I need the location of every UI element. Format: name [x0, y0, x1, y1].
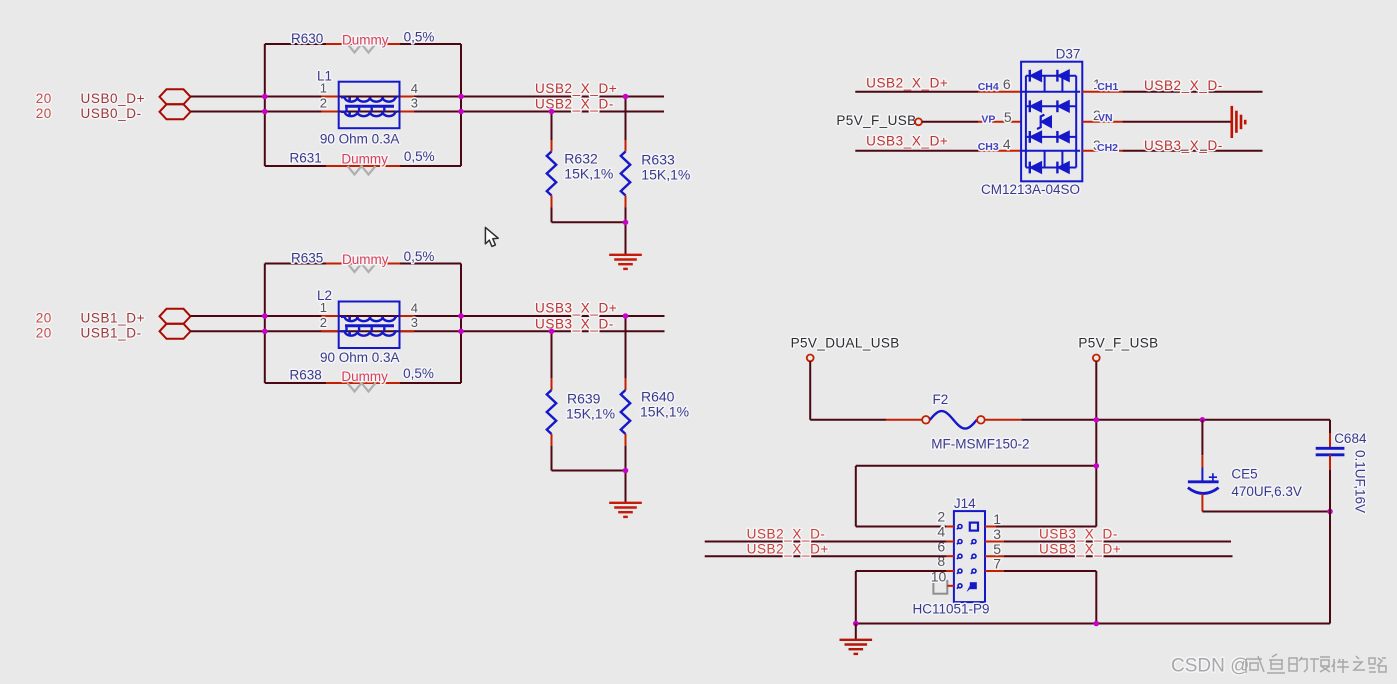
svg-text:CE5: CE5 — [1231, 467, 1257, 482]
inductor L2 upper winding — [341, 317, 397, 321]
ground symbol GND3 — [840, 640, 873, 654]
char 鱼 — [1267, 654, 1285, 673]
svg-text:R632: R632 — [564, 151, 598, 167]
junction (461,316) — [458, 313, 464, 319]
capacitor C684 top lead dark — [1329, 420, 1331, 433]
J14 pin6 stub red — [946, 555, 954, 557]
port symbol USB0_D- (hexagon) — [160, 104, 191, 119]
wire USB3_X_D+ to D37 — [855, 150, 978, 152]
capacitor CE5 top pin red — [1201, 455, 1203, 467]
svg-text:P5V_F_USB: P5V_F_USB — [836, 113, 916, 128]
svg-text:1: 1 — [993, 511, 1001, 527]
svg-text:USB1_D+: USB1_D+ — [81, 311, 146, 326]
svg-text:D37: D37 — [1056, 47, 1081, 62]
D37 body box — [1021, 62, 1082, 182]
svg-text:CSDN @: CSDN @ — [1171, 656, 1249, 677]
resistor R632 top lead dark — [551, 112, 553, 141]
svg-text:2: 2 — [320, 96, 327, 111]
svg-text:F2: F2 — [933, 392, 949, 407]
junction (855.8,623.5) — [853, 621, 859, 627]
inductor L1 pin stubs (red) — [321, 96, 339, 98]
resistor R631 pins (red) — [326, 165, 400, 167]
char 硬 — [1310, 657, 1330, 672]
wire horizontal at 465.8 — [856, 465, 1097, 467]
capacitor CE5 curved plate — [1188, 488, 1219, 494]
wire USB2_X_D+ to D37 — [855, 91, 978, 93]
resistor R638 pins (red) — [326, 382, 400, 384]
wire fuse to C684 rail — [1021, 419, 1330, 421]
fuse F2 left terminal circle — [922, 416, 930, 424]
pin 1 stub (red) — [1082, 91, 1122, 93]
junction (625.5,96.5) — [623, 94, 629, 100]
wire USB1_D- row — [191, 330, 665, 332]
wire pin1 to P5V vertical — [996, 526, 1096, 528]
svg-text:R638: R638 — [290, 368, 322, 383]
svg-text:20: 20 — [36, 311, 52, 326]
svg-text:Dummy: Dummy — [341, 152, 388, 167]
svg-text:USB3_X_D+: USB3_X_D+ — [535, 301, 617, 316]
D37 inner vertical row1-pin1 right — [1061, 76, 1063, 92]
resistor R640 top lead dark — [625, 316, 627, 378]
inductor L1 lower polarity tick — [348, 112, 351, 117]
svg-text:R633: R633 — [641, 152, 675, 168]
svg-text:CH3: CH3 — [978, 141, 999, 153]
wire USB0_D- row — [191, 111, 665, 113]
svg-text:90 Ohm 0.3A: 90 Ohm 0.3A — [320, 132, 400, 147]
svg-text:Dummy: Dummy — [341, 369, 388, 384]
D37 diodes row 3 — [1030, 131, 1070, 143]
D37 interior left rail — [1025, 76, 1027, 168]
J14 pin1 stub red — [985, 526, 996, 528]
open terminal circle P5V_F_USB top — [1093, 355, 1100, 362]
wire USB0_D+ row — [191, 96, 665, 98]
svg-text:5: 5 — [993, 541, 1001, 557]
svg-text:USB2_X_D+: USB2_X_D+ — [535, 81, 617, 96]
capacitor CE5 top lead dark — [1201, 420, 1203, 455]
junction (625.5,316) — [623, 313, 629, 319]
capacitor CE5 blue lead — [1201, 468, 1203, 482]
svg-text:VN: VN — [1098, 112, 1113, 124]
svg-text:20: 20 — [36, 326, 52, 341]
svg-text:USB0_D+: USB0_D+ — [81, 91, 146, 106]
junction (264.8,331.3) — [262, 329, 268, 335]
resistor R630 pins (red) — [326, 43, 400, 45]
J14 pin1 inner square glyph — [970, 523, 978, 531]
svg-text:470UF,6.3V: 470UF,6.3V — [1231, 484, 1302, 499]
wire R631 bottom row — [265, 165, 461, 167]
svg-text:USB3_X_D-: USB3_X_D- — [1144, 138, 1223, 153]
junction (264.8,316) — [262, 313, 268, 319]
wire pin7 vertical down — [1095, 571, 1097, 624]
pin 2 stub (red) — [1082, 121, 1122, 123]
junction (1096.3,623.5) — [1094, 621, 1100, 627]
wire R635 top row — [265, 263, 461, 265]
resistor R640 bottom lead dark — [625, 446, 627, 471]
char 路 — [1369, 658, 1386, 672]
capacitor C684 top plate — [1316, 447, 1345, 450]
svg-text:0.1UF,16V: 0.1UF,16V — [1353, 450, 1368, 513]
svg-text:0,5%: 0,5% — [403, 366, 434, 381]
svg-text:R630: R630 — [291, 31, 323, 46]
inductor L2 pin stubs (red) — [321, 315, 339, 317]
svg-text:USB2_X_D+: USB2_X_D+ — [747, 541, 829, 556]
D37 diode row 1 line — [1026, 75, 1076, 77]
svg-text:CH1: CH1 — [1097, 81, 1118, 93]
D37 diodes row 4 — [1030, 162, 1070, 174]
port symbol USB1_D- (hexagon) — [160, 324, 191, 339]
svg-text:2: 2 — [937, 509, 945, 525]
inductor L1 lower winding stems — [347, 108, 385, 112]
resistor R639 bottom pin red — [551, 434, 553, 446]
svg-text:0,5%: 0,5% — [404, 149, 435, 164]
capacitor CE5 plus sign — [1209, 473, 1217, 481]
resistor R632 body zigzag — [547, 152, 556, 196]
svg-text:MF-MSMF150-2: MF-MSMF150-2 — [931, 437, 1029, 452]
capacitor CE5 top plate — [1188, 480, 1219, 483]
svg-text:USB3_X_D+: USB3_X_D+ — [866, 134, 948, 149]
D37 diode row 4 line — [1026, 167, 1076, 169]
resistor R640 top pin red — [625, 378, 627, 390]
fuse F2 right terminal circle — [977, 416, 985, 424]
capacitor C684 bottom lead dark — [1329, 470, 1331, 624]
J14 pin2 stub red — [946, 526, 954, 528]
wire R635 loop right vertical — [460, 264, 462, 384]
D37 inner vertical row1-pin1 — [1044, 76, 1046, 92]
D37 pin row CH4-1 inner line — [1021, 91, 1080, 93]
wire P5V_DUAL_USB down — [809, 361, 811, 420]
wire D37 pin2 VN to ground — [1122, 121, 1231, 123]
D37 diode row 3 line — [1026, 136, 1076, 138]
watermark chinese characters (approximated strokes) — [1246, 654, 1386, 673]
svg-text:USB2_X_D-: USB2_X_D- — [747, 526, 826, 541]
wire pin8 vertical down — [855, 571, 857, 624]
J14 pin5 stub red — [985, 555, 1004, 557]
resistor R640 bottom pin red — [625, 434, 627, 446]
inductor L2 core bar — [345, 324, 394, 327]
resistor R633 top lead dark — [625, 97, 627, 141]
wire ground stem 2 — [625, 471, 627, 503]
ground symbol GND2 — [609, 503, 642, 517]
svg-text:J14: J14 — [954, 496, 976, 511]
svg-text:R640: R640 — [641, 388, 675, 404]
svg-text:15K,1%: 15K,1% — [564, 166, 613, 182]
svg-text:USB0_D-: USB0_D- — [81, 106, 142, 121]
svg-text:4: 4 — [937, 524, 945, 540]
svg-text:15K,1%: 15K,1% — [641, 167, 690, 183]
svg-text:4: 4 — [411, 300, 418, 315]
resistor R639 top pin red — [551, 378, 553, 390]
wire USB3_X_D+ long (from pin5) — [1004, 555, 1233, 557]
J14 pin9 inner filled glyph — [970, 582, 977, 589]
J14 inner pin glyphs right column — [971, 540, 976, 574]
char 之 — [1353, 656, 1365, 670]
wire CE5 bottom rail — [1202, 511, 1330, 513]
junction (551.5,111.5) — [549, 109, 555, 115]
D37 interior right rail — [1075, 76, 1077, 168]
J14 pin10 no-connect square — [933, 581, 947, 594]
inductor L1 lower winding — [341, 112, 397, 116]
junction (1096.3,419.8) — [1094, 417, 1100, 423]
inductor L2 body box — [339, 302, 400, 349]
svg-text:P5V_DUAL_USB: P5V_DUAL_USB — [791, 336, 900, 351]
svg-text:7: 7 — [993, 556, 1001, 572]
J14 pin8 stub red — [946, 570, 954, 572]
wire to fuse F2 — [810, 419, 886, 421]
resistor R638 body (gray zigzag) — [348, 383, 376, 392]
ground stem bottom — [855, 624, 857, 640]
wire D37 pin3 to USB3_X_D- — [1122, 150, 1262, 152]
wire R630 top row — [265, 43, 461, 45]
pin VP stub (red) — [978, 121, 1021, 123]
svg-text:USB3_X_D-: USB3_X_D- — [1039, 526, 1118, 541]
svg-text:4: 4 — [411, 81, 418, 96]
connector J14 body box — [954, 511, 985, 602]
svg-text:Dummy: Dummy — [342, 33, 389, 48]
wire pin7 to right vertical — [1004, 570, 1097, 572]
inductor L1 core bar — [345, 105, 394, 108]
inductor L1 body box — [339, 82, 400, 129]
svg-text:0,5%: 0,5% — [404, 249, 435, 264]
svg-text:VP: VP — [981, 114, 995, 126]
capacitor CE5 bottom pin red — [1201, 494, 1203, 512]
svg-text:0,5%: 0,5% — [404, 30, 435, 45]
wire bottom connecting R639/R640 — [552, 470, 626, 472]
svg-text:R631: R631 — [290, 150, 322, 165]
junction (551.5,331.3) — [549, 329, 555, 335]
svg-text:USB2_X_D-: USB2_X_D- — [1144, 78, 1223, 93]
resistor R632 bottom pin red — [551, 196, 553, 208]
junction (1096.3,465.8) — [1094, 463, 1100, 469]
svg-text:3: 3 — [411, 315, 418, 330]
resistor R633 body zigzag — [621, 152, 630, 196]
svg-text:4: 4 — [1003, 136, 1011, 152]
pin 3 stub (red) — [1082, 150, 1122, 152]
wire to J14 pin2 — [856, 526, 947, 528]
char 的 — [1289, 657, 1307, 672]
junction (625.5,222.3) — [623, 220, 629, 226]
svg-text:1: 1 — [320, 300, 327, 315]
J14 pin4 stub red — [946, 541, 954, 543]
junction (461,96.5) — [458, 94, 464, 100]
wire R638 bottom row — [265, 382, 461, 384]
D37 zener diode (middle) — [1037, 115, 1052, 129]
wire P5V_F_USB vertical — [1095, 361, 1097, 526]
mouse cursor — [485, 227, 498, 246]
svg-text:R639: R639 — [567, 390, 601, 406]
resistor R632 top pin red — [551, 140, 553, 152]
resistor R639 top lead dark — [551, 331, 553, 378]
svg-text:USB3_X_D-: USB3_X_D- — [535, 316, 614, 331]
wire ground stem — [625, 222, 627, 254]
svg-text:20: 20 — [36, 106, 52, 121]
capacitor C684 top pin red — [1329, 433, 1331, 448]
inductor L1 upper polarity tick — [348, 97, 351, 102]
svg-text:USB3_X_D+: USB3_X_D+ — [1039, 541, 1121, 556]
svg-text:CH4: CH4 — [978, 81, 999, 93]
svg-text:CH2: CH2 — [1097, 142, 1118, 154]
junction (461,111.5) — [458, 109, 464, 115]
J14 pin7 stub red — [985, 570, 1004, 572]
D37 diodes row 1 — [1030, 70, 1070, 82]
resistor R640 body zigzag — [621, 390, 630, 434]
inductor L2 lower winding — [341, 331, 397, 335]
char 咸 — [1246, 656, 1264, 673]
wire R630 loop left vertical — [264, 44, 266, 166]
pin CH3 stub (red) — [978, 150, 1021, 152]
ground symbol (rotated, right of D37) — [1232, 106, 1245, 138]
svg-text:15K,1%: 15K,1% — [566, 405, 615, 421]
resistor R633 bottom pin red — [625, 196, 627, 208]
resistor R639 body zigzag — [547, 390, 556, 434]
J14 inner pin glyphs left column — [957, 525, 962, 589]
wire bottom ground rail — [856, 623, 1330, 625]
svg-text:15K,1%: 15K,1% — [640, 403, 689, 419]
wire USB2_X_D- long (to pin4) — [705, 541, 947, 543]
svg-text:R635: R635 — [291, 251, 323, 266]
wire USB2_X_D+ long (to pin6) — [705, 555, 947, 557]
svg-text:3: 3 — [993, 526, 1001, 542]
port symbol USB1_D+ (hexagon) — [160, 309, 191, 324]
svg-text:USB1_D-: USB1_D- — [81, 326, 142, 341]
resistor R631 body (gray zigzag) — [348, 166, 376, 175]
junction (461,331.3) — [458, 329, 464, 335]
wire USB1_D+ row — [191, 315, 665, 317]
resistor R633 top pin red — [625, 140, 627, 152]
svg-text:HC11051-P9: HC11051-P9 — [913, 601, 990, 616]
svg-text:20: 20 — [36, 91, 52, 106]
svg-text:USB2_X_D+: USB2_X_D+ — [866, 76, 948, 91]
inductor L2 upper polarity tick — [348, 317, 351, 322]
fuse F2 right pin (red) — [985, 419, 1021, 421]
svg-text:CM1213A-04SO: CM1213A-04SO — [981, 182, 1080, 197]
resistor R635 pins (red) — [326, 263, 400, 265]
open terminal circle P5V_DUAL_USB — [807, 355, 814, 362]
wire R630 loop right vertical — [460, 44, 462, 166]
wire D37 pin1 to USB2_X_D- — [1122, 91, 1262, 93]
open terminal circle P5V_F_USB — [915, 118, 922, 125]
resistor R639 bottom lead dark — [551, 446, 553, 471]
J14 pin10 stub red — [947, 585, 954, 587]
junction (264.8,96.5) — [262, 94, 268, 100]
inductor L2 lower polarity tick — [348, 331, 351, 336]
J14 pin3 stub red — [985, 541, 1004, 543]
svg-text:90 Ohm 0.3A: 90 Ohm 0.3A — [320, 350, 400, 365]
junction (1330,511.5) — [1327, 509, 1333, 515]
wire R635 loop left vertical — [264, 264, 266, 384]
svg-text:2: 2 — [320, 315, 327, 330]
wire left vertical to pin2 — [855, 466, 857, 527]
svg-text:1: 1 — [320, 81, 327, 96]
wire P5V_F_USB to D37 — [922, 121, 978, 123]
wire bottom connecting R632/R633 — [552, 221, 626, 223]
svg-text:3: 3 — [411, 95, 418, 110]
resistor R635 body (gray zigzag) — [348, 264, 376, 273]
capacitor C684 bottom pin red — [1329, 455, 1331, 470]
ground symbol GND1 — [609, 255, 642, 269]
pin CH4 stub (red) — [978, 91, 1021, 93]
fuse F2 left pin (red) — [886, 419, 922, 421]
resistor R630 body (gray zigzag) — [348, 44, 376, 53]
svg-text:USB2_X_D-: USB2_X_D- — [535, 97, 614, 112]
svg-text:5: 5 — [1004, 109, 1012, 125]
junction (1202.4,419.8) — [1200, 417, 1206, 423]
svg-text:C684: C684 — [1334, 431, 1367, 446]
svg-text:Dummy: Dummy — [342, 252, 389, 267]
inductor L2 lower winding stems — [347, 327, 385, 331]
wire USB3_X_D- long (from pin3) — [1004, 541, 1231, 543]
D37 pin row CH3-3 inner line — [1021, 150, 1080, 152]
junction (625.5,470.5) — [623, 468, 629, 474]
wire pin8 to left vertical — [856, 570, 947, 572]
D37 diode row 2 line — [1026, 105, 1076, 107]
inductor L1 upper winding — [341, 97, 397, 101]
svg-text:P5V_F_USB: P5V_F_USB — [1078, 336, 1158, 351]
D37 diodes row 2 — [1030, 100, 1070, 112]
svg-text:6: 6 — [1003, 76, 1011, 92]
D37 inner vertical pin3-row4 right — [1061, 151, 1063, 168]
resistor R632 bottom lead dark — [551, 208, 553, 223]
fuse F2 body (blue curve) — [930, 411, 977, 429]
capacitor C684 bottom plate — [1316, 453, 1345, 456]
port symbol USB0_D+ (hexagon) — [160, 89, 191, 104]
char 件 — [1332, 659, 1349, 673]
D37 inner vertical pin3-row4 — [1044, 151, 1046, 168]
resistor R633 bottom lead dark — [625, 208, 627, 223]
junction (264.8,111.5) — [262, 109, 268, 115]
